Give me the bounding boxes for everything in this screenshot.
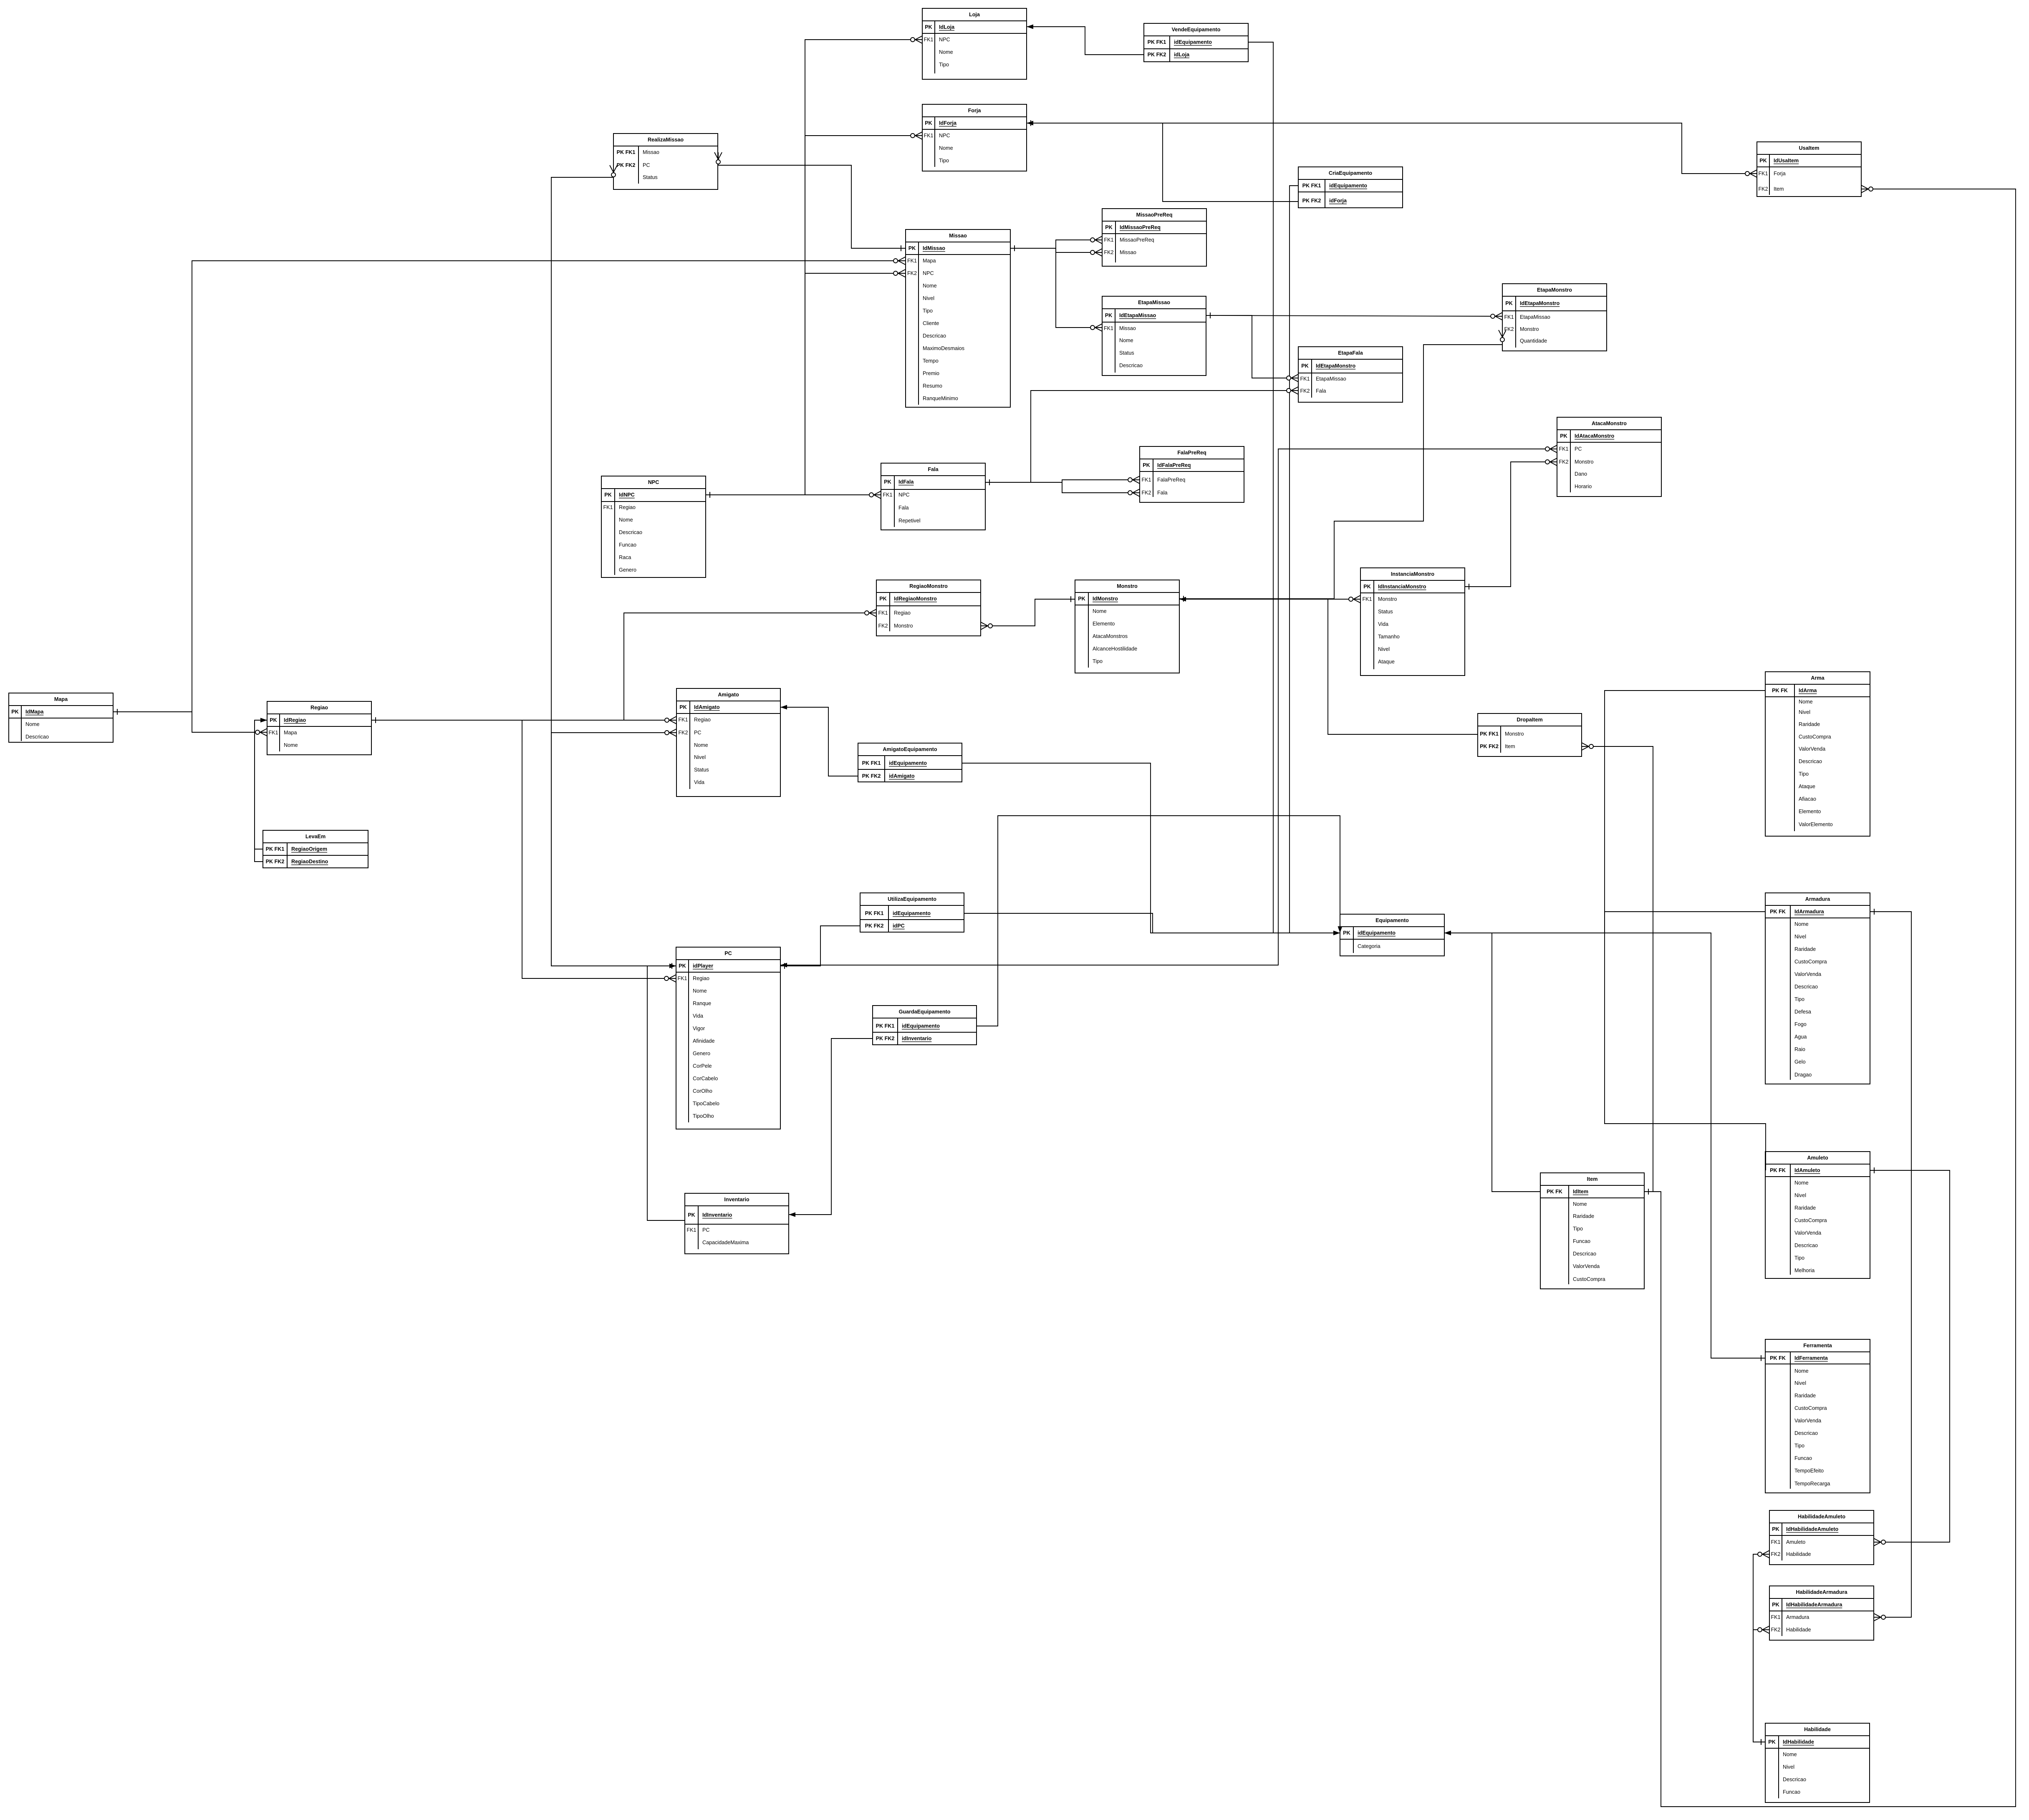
svg-text:FK1: FK1 — [878, 610, 888, 616]
svg-text:FK2: FK2 — [907, 270, 917, 276]
svg-text:Ferramenta: Ferramenta — [1803, 1343, 1832, 1349]
svg-text:NPC: NPC — [939, 37, 950, 43]
entity table EtapaMonstro — [1502, 284, 1607, 351]
entity table CriaEquipamento — [1298, 167, 1403, 208]
svg-text:NPC: NPC — [923, 270, 934, 276]
svg-text:FalaPreReq: FalaPreReq — [1177, 450, 1206, 456]
svg-text:Nome: Nome — [1573, 1201, 1587, 1207]
svg-text:PK: PK — [909, 245, 916, 251]
svg-text:PK: PK — [1343, 930, 1350, 936]
svg-text:Nivel: Nivel — [1794, 1192, 1806, 1198]
svg-text:IdRegiaoMonstro: IdRegiaoMonstro — [894, 596, 937, 602]
svg-text:Tipo: Tipo — [939, 158, 949, 164]
svg-text:Regiao: Regiao — [894, 610, 911, 616]
svg-text:CorCabelo: CorCabelo — [693, 1076, 718, 1081]
svg-text:IdRegiao: IdRegiao — [284, 717, 306, 723]
svg-text:CustoCompra: CustoCompra — [1573, 1276, 1605, 1282]
wire Fala.IdFala to FalaPreReq.FalaPreReq — [985, 476, 1140, 484]
svg-text:Descricao: Descricao — [1783, 1777, 1806, 1782]
svg-text:Nome: Nome — [939, 49, 953, 55]
wire Amigato.PC to PC.idPlayer — [551, 729, 676, 968]
svg-text:VendeEquipamento: VendeEquipamento — [1172, 27, 1221, 33]
svg-text:Nome: Nome — [25, 721, 40, 727]
svg-text:Missao: Missao — [1119, 325, 1136, 331]
svg-text:TempoRecarga: TempoRecarga — [1794, 1481, 1830, 1487]
entity table Ferramenta — [1765, 1339, 1870, 1493]
wire Missao.IdMissao to MissaoPreReq.MissaoPreReq — [1010, 236, 1102, 251]
svg-text:Mapa: Mapa — [54, 696, 68, 702]
svg-text:Genero: Genero — [693, 1051, 710, 1056]
svg-text:PK: PK — [1505, 300, 1513, 306]
entity table Amigato — [676, 688, 780, 797]
wire VendeEquipamento.idLoja to Loja.IdLoja — [1027, 25, 1144, 55]
svg-text:EtapaMonstro: EtapaMonstro — [1537, 287, 1572, 293]
svg-text:FK1: FK1 — [1300, 376, 1310, 382]
entity table NPC — [601, 476, 706, 577]
svg-text:CustoCompra: CustoCompra — [1794, 1405, 1827, 1411]
svg-text:Funcao: Funcao — [1794, 1455, 1812, 1461]
svg-text:NPC: NPC — [648, 479, 659, 485]
svg-text:HabilidadeAmuleto: HabilidadeAmuleto — [1798, 1514, 1845, 1520]
wire RealizaMissao.Missao to Missao.IdMissao — [714, 152, 905, 251]
svg-text:Mapa: Mapa — [923, 258, 936, 264]
svg-text:PK FK2: PK FK2 — [876, 1036, 895, 1041]
svg-text:Nome: Nome — [693, 988, 707, 994]
svg-text:IdAmuleto: IdAmuleto — [1794, 1167, 1820, 1173]
svg-text:Inventario: Inventario — [724, 1197, 749, 1202]
svg-text:Nome: Nome — [1799, 699, 1813, 705]
svg-text:MissaoPreReq: MissaoPreReq — [1136, 212, 1173, 218]
svg-text:idEquipamento: idEquipamento — [902, 1023, 940, 1029]
svg-text:PK FK: PK FK — [1547, 1189, 1562, 1195]
wire Item.IdItem to UsaItem.Item — [1644, 185, 2016, 1807]
wire Mapa.IdMapa to Regiao.Mapa — [113, 712, 267, 736]
svg-text:PK FK2: PK FK2 — [1302, 198, 1321, 204]
svg-text:IdHabilidade: IdHabilidade — [1783, 1739, 1814, 1745]
svg-text:IdMissao: IdMissao — [923, 245, 945, 251]
svg-text:Nome: Nome — [694, 742, 708, 748]
entity table LevaEm — [263, 830, 368, 868]
svg-text:Monstro: Monstro — [894, 623, 913, 629]
wire Fala.IdFala to EtapaFala.Fala — [985, 387, 1298, 485]
svg-text:PK: PK — [1301, 363, 1309, 369]
svg-text:ValorVenda: ValorVenda — [1794, 971, 1821, 977]
entity table MissaoPreReq — [1102, 209, 1206, 266]
wire Missao.IdMissao to EtapaMissao.Missao — [1010, 248, 1102, 331]
wire Fala.IdFala to FalaPreReq.Fala — [985, 482, 1140, 497]
wire EtapaMissao.IdEtapaMissao to EtapaFala.EtapaMissao — [1206, 315, 1298, 382]
svg-text:FK1: FK1 — [678, 717, 688, 723]
entity table Arma — [1765, 672, 1870, 836]
svg-text:Nivel: Nivel — [923, 295, 934, 301]
svg-text:Tipo: Tipo — [1794, 996, 1804, 1002]
entity table InstanciaMonstro — [1360, 568, 1465, 676]
svg-text:ValorElemento: ValorElemento — [1799, 822, 1833, 827]
entity table Equipamento — [1340, 914, 1444, 956]
svg-text:PK: PK — [884, 479, 891, 485]
svg-text:FK1: FK1 — [883, 492, 892, 498]
entity table PC — [676, 947, 780, 1129]
svg-text:Funcao: Funcao — [1783, 1789, 1800, 1795]
svg-text:Afiacao: Afiacao — [1799, 796, 1816, 802]
wire EtapaMissao.IdEtapaMissao to EtapaMonstro.EtapaMissao — [1206, 313, 1502, 320]
svg-text:Fogo: Fogo — [1794, 1021, 1807, 1027]
svg-text:IdMonstro: IdMonstro — [1093, 596, 1118, 602]
svg-text:PK FK2: PK FK2 — [865, 923, 884, 929]
svg-text:CorPele: CorPele — [693, 1063, 712, 1069]
svg-text:IdHabilidadeArmadura: IdHabilidadeArmadura — [1786, 1602, 1842, 1608]
svg-text:Forja: Forja — [1774, 171, 1786, 176]
svg-text:Armadura: Armadura — [1805, 896, 1830, 902]
svg-text:IdEtapaMonstro: IdEtapaMonstro — [1520, 300, 1560, 306]
svg-text:Ataque: Ataque — [1378, 659, 1395, 665]
svg-text:Raridade: Raridade — [1794, 946, 1816, 952]
svg-text:Status: Status — [643, 174, 658, 180]
svg-text:PK: PK — [879, 596, 887, 602]
svg-text:Resumo: Resumo — [923, 383, 942, 389]
entity table EtapaMissao — [1102, 296, 1206, 376]
svg-text:Repetivel: Repetivel — [898, 518, 921, 524]
wire NPC.IdNPC to Missao.NPC — [706, 270, 905, 498]
entity table Inventario — [685, 1193, 789, 1254]
entity table GuardaEquipamento — [873, 1006, 977, 1045]
svg-text:ValorVenda: ValorVenda — [1794, 1418, 1821, 1424]
wire Regiao.IdRegiao to RegiaoMonstro.Regiao — [371, 609, 876, 723]
svg-text:UsaItem: UsaItem — [1799, 145, 1820, 151]
svg-text:Tipo: Tipo — [1794, 1255, 1804, 1261]
svg-text:PK FK1: PK FK1 — [1148, 39, 1166, 45]
svg-text:PC: PC — [1575, 446, 1582, 452]
svg-text:IdFerramenta: IdFerramenta — [1794, 1355, 1828, 1361]
entity table HabilidadeAmuleto — [1769, 1510, 1874, 1565]
svg-text:Nivel: Nivel — [1378, 646, 1390, 652]
svg-text:PC: PC — [643, 162, 650, 168]
wire Regiao.IdRegiao to Amigato.Regiao — [371, 716, 676, 724]
svg-text:ValorVenda: ValorVenda — [1794, 1230, 1821, 1236]
entity table FalaPreReq — [1140, 446, 1244, 502]
svg-text:ValorVenda: ValorVenda — [1799, 746, 1825, 752]
svg-text:Funcao: Funcao — [619, 542, 636, 548]
svg-text:IdLoja: IdLoja — [939, 24, 955, 30]
svg-text:Item: Item — [1505, 744, 1515, 749]
svg-text:Monstro: Monstro — [1505, 731, 1524, 737]
svg-text:Tipo: Tipo — [923, 308, 933, 314]
svg-text:Quantidade: Quantidade — [1520, 338, 1547, 344]
wire UtilizaEquipamento.idEquipamento to Equipamento — [964, 913, 1340, 935]
svg-text:FK2: FK2 — [1300, 388, 1310, 394]
svg-text:FK1: FK1 — [1771, 1539, 1780, 1545]
svg-text:Nivel: Nivel — [694, 754, 706, 760]
svg-text:PK FK1: PK FK1 — [1302, 183, 1321, 189]
svg-text:PK: PK — [1105, 224, 1113, 230]
svg-text:AtacaMonstros: AtacaMonstros — [1093, 633, 1128, 639]
svg-text:Premio: Premio — [923, 371, 939, 376]
svg-text:Missao: Missao — [643, 149, 659, 155]
svg-text:Raca: Raca — [619, 555, 631, 560]
svg-text:FK2: FK2 — [1771, 1627, 1780, 1633]
entity table Regiao — [267, 701, 371, 755]
entity table AtacaMonstro — [1557, 417, 1661, 497]
svg-text:Habilidade: Habilidade — [1804, 1727, 1831, 1732]
svg-text:InstanciaMonstro: InstanciaMonstro — [1391, 571, 1435, 577]
svg-text:Descricao: Descricao — [619, 529, 642, 535]
svg-text:FK2: FK2 — [678, 730, 688, 736]
svg-text:PK: PK — [679, 963, 686, 969]
svg-text:IdAmigato: IdAmigato — [694, 704, 720, 710]
svg-text:IdEtapaMissao: IdEtapaMissao — [1119, 313, 1156, 318]
svg-text:RanqueMinimo: RanqueMinimo — [923, 396, 958, 401]
svg-text:PK: PK — [270, 717, 277, 723]
svg-text:IdNPC: IdNPC — [619, 492, 635, 498]
wire Monstro.IdMonstro to DropaItem.Monstro — [1179, 599, 1478, 734]
svg-text:FK2: FK2 — [1771, 1551, 1780, 1557]
svg-text:FK1: FK1 — [1758, 171, 1768, 176]
svg-text:PK FK1: PK FK1 — [876, 1023, 895, 1029]
entity table Monstro — [1075, 580, 1179, 673]
svg-text:Monstro: Monstro — [1575, 459, 1594, 465]
svg-text:Elemento: Elemento — [1093, 621, 1115, 627]
svg-text:IdArmadura: IdArmadura — [1794, 909, 1825, 915]
svg-text:Amuleto: Amuleto — [1807, 1155, 1828, 1161]
wire NPC.IdNPC to Forja.NPC — [706, 132, 922, 498]
svg-text:GuardaEquipamento: GuardaEquipamento — [899, 1009, 951, 1015]
svg-text:PK: PK — [1759, 158, 1767, 164]
svg-text:IdEtapaMonstro: IdEtapaMonstro — [1316, 363, 1355, 369]
svg-text:Tipo: Tipo — [1573, 1226, 1583, 1232]
svg-text:Ranque: Ranque — [693, 1001, 711, 1006]
wire VendeEquipamento.idEquipamento to Equipamento — [1248, 42, 1340, 935]
svg-text:idEquipamento: idEquipamento — [889, 760, 927, 766]
entity table DropaItem — [1478, 713, 1582, 756]
svg-text:RegiaoDestino: RegiaoDestino — [291, 859, 328, 865]
svg-text:PK FK1: PK FK1 — [862, 760, 881, 766]
svg-text:Raridade: Raridade — [1794, 1393, 1816, 1399]
svg-text:PK FK2: PK FK2 — [617, 162, 636, 168]
svg-text:Fala: Fala — [928, 466, 939, 472]
svg-text:idPlayer: idPlayer — [693, 963, 713, 969]
svg-text:FK2: FK2 — [1559, 459, 1568, 465]
svg-text:PC: PC — [724, 950, 732, 956]
svg-text:PK: PK — [925, 24, 932, 30]
svg-text:IdArma: IdArma — [1799, 688, 1817, 693]
svg-text:EtapaFala: EtapaFala — [1338, 350, 1363, 356]
wire GuardaEquipamento.idInventario to Inventario.IdInventario — [789, 1039, 873, 1217]
svg-text:IdFalaPreReq: IdFalaPreReq — [1157, 462, 1191, 468]
svg-text:PK FK1: PK FK1 — [865, 910, 884, 916]
svg-text:Horario: Horario — [1575, 484, 1592, 489]
svg-text:PK: PK — [925, 120, 932, 126]
svg-text:Funcao: Funcao — [1573, 1238, 1590, 1244]
svg-text:PK FK1: PK FK1 — [617, 149, 636, 155]
svg-text:Nivel: Nivel — [1794, 1380, 1806, 1386]
entity table Fala — [881, 463, 985, 530]
svg-text:AmigatoEquipamento: AmigatoEquipamento — [883, 746, 937, 752]
svg-text:IdAtacaMonstro: IdAtacaMonstro — [1575, 433, 1614, 439]
svg-text:PK FK: PK FK — [1770, 909, 1786, 915]
wire HabilidadeArmadura.Habilidade to Habilidade.IdHabilidade — [1753, 1626, 1769, 1745]
svg-text:Monstro: Monstro — [1117, 583, 1138, 589]
svg-text:Descricao: Descricao — [1794, 1243, 1818, 1248]
svg-text:NPC: NPC — [939, 133, 950, 139]
wire LevaEm.RegiaoOrigem to Regiao.IdRegiao — [255, 718, 267, 850]
svg-text:Item: Item — [1774, 186, 1784, 192]
svg-text:Descricao: Descricao — [1794, 984, 1818, 990]
wire UtilizaEquipamento.idPC to PC.idPlayer — [780, 926, 860, 969]
svg-text:FK1: FK1 — [268, 730, 278, 736]
svg-text:Status: Status — [1378, 609, 1393, 615]
wire Monstro.IdMonstro to InstanciaMonstro.Monstro — [1179, 595, 1360, 603]
svg-text:Arma: Arma — [1811, 675, 1825, 681]
svg-text:Tamanho: Tamanho — [1378, 634, 1400, 640]
svg-text:IdForja: IdForja — [939, 120, 957, 126]
svg-text:Nivel: Nivel — [1794, 934, 1806, 940]
svg-text:Nivel: Nivel — [1783, 1764, 1794, 1770]
svg-text:PK FK2: PK FK2 — [862, 773, 881, 779]
svg-text:Gelo: Gelo — [1794, 1059, 1806, 1065]
svg-text:PK: PK — [1105, 313, 1113, 318]
svg-text:PK: PK — [1363, 584, 1371, 590]
svg-text:PK: PK — [1772, 1602, 1779, 1608]
entity table EtapaFala — [1298, 347, 1403, 402]
svg-text:PK FK: PK FK — [1770, 1167, 1786, 1173]
svg-text:idEquipamento: idEquipamento — [1174, 39, 1212, 45]
svg-text:Raridade: Raridade — [1573, 1213, 1594, 1219]
svg-text:CorOlho: CorOlho — [693, 1088, 712, 1094]
svg-text:Descricao: Descricao — [25, 734, 49, 740]
wire Amuleto.IdAmuleto to Equipamento.idEquipamento — [1444, 931, 1766, 1171]
svg-text:IdItem: IdItem — [1573, 1189, 1588, 1195]
wire NPC.IdNPC to Loja.NPC — [706, 36, 922, 498]
svg-text:IdUsaItem: IdUsaItem — [1774, 158, 1799, 164]
svg-text:PK: PK — [1768, 1739, 1776, 1745]
svg-text:FK1: FK1 — [924, 37, 933, 43]
svg-text:Nome: Nome — [939, 145, 953, 151]
svg-text:PK: PK — [1560, 433, 1567, 439]
svg-text:CapacidadeMaxima: CapacidadeMaxima — [702, 1240, 749, 1245]
svg-text:Loja: Loja — [969, 12, 980, 18]
svg-text:Defesa: Defesa — [1794, 1009, 1811, 1015]
svg-text:FK1: FK1 — [1362, 596, 1372, 602]
entity table HabilidadeArmadura — [1769, 1586, 1874, 1640]
svg-text:Monstro: Monstro — [1520, 326, 1539, 332]
svg-text:PK: PK — [11, 709, 19, 715]
svg-text:FK1: FK1 — [1104, 237, 1113, 243]
svg-text:IdInstanciaMonstro: IdInstanciaMonstro — [1378, 584, 1426, 590]
svg-text:FK1: FK1 — [1504, 314, 1514, 320]
svg-text:FalaPreReq: FalaPreReq — [1157, 477, 1185, 483]
wire AmigatoEquipamento.idEquipamento to Equipamento — [962, 763, 1340, 935]
svg-text:ValorVenda: ValorVenda — [1573, 1263, 1600, 1269]
svg-text:PK FK: PK FK — [1770, 1355, 1786, 1361]
svg-text:Equipamento: Equipamento — [1375, 918, 1409, 923]
entity table Loja — [922, 8, 1027, 79]
svg-text:Tipo: Tipo — [939, 62, 949, 68]
svg-text:idAmigato: idAmigato — [889, 773, 915, 779]
entity table Missao — [906, 229, 1010, 407]
svg-text:FK1: FK1 — [1771, 1614, 1780, 1620]
svg-text:Nome: Nome — [1093, 608, 1107, 614]
wire NPC.IdNPC to Fala.NPC — [706, 491, 881, 499]
svg-text:Missao: Missao — [949, 233, 967, 239]
svg-text:PK FK: PK FK — [1772, 688, 1788, 693]
wire AtacaMonstro.PC to PC.idPlayer — [780, 445, 1557, 968]
entity table UtilizaEquipamento — [860, 893, 964, 932]
svg-text:FK1: FK1 — [924, 133, 933, 139]
svg-text:Dragao: Dragao — [1794, 1072, 1812, 1078]
svg-text:PK: PK — [604, 492, 612, 498]
svg-text:DropaItem: DropaItem — [1517, 717, 1542, 723]
svg-text:FK1: FK1 — [907, 258, 917, 264]
svg-text:MissaoPreReq: MissaoPreReq — [1120, 237, 1154, 243]
wire AmigatoEquipamento.idAmigato to Amigato.IdAmigato — [780, 705, 858, 776]
wire HabilidadeAmuleto.Habilidade to Habilidade.IdHabilidade — [1753, 1550, 1769, 1745]
svg-text:Categoria: Categoria — [1358, 943, 1380, 949]
svg-text:PK: PK — [1078, 596, 1085, 602]
svg-text:PK FK2: PK FK2 — [1148, 52, 1166, 58]
wire Ferramenta.IdFerramenta to Equipamento.idEquipamento — [1444, 931, 1765, 1361]
svg-text:IdFala: IdFala — [898, 479, 914, 485]
svg-text:Forja: Forja — [968, 108, 982, 113]
svg-text:EtapaMissao: EtapaMissao — [1520, 314, 1550, 320]
svg-text:Fala: Fala — [1316, 388, 1326, 394]
svg-text:MaximoDesmaios: MaximoDesmaios — [923, 345, 964, 351]
svg-text:Nome: Nome — [1794, 921, 1809, 927]
svg-text:PK: PK — [688, 1212, 695, 1218]
svg-text:Genero: Genero — [619, 567, 636, 573]
svg-text:TempoEfeito: TempoEfeito — [1794, 1468, 1824, 1474]
svg-text:Habilidade: Habilidade — [1786, 1627, 1811, 1633]
entity table Armadura — [1765, 893, 1870, 1084]
svg-text:idInventario: idInventario — [902, 1036, 932, 1041]
entity table Amuleto — [1765, 1152, 1870, 1278]
svg-text:EtapaMissao: EtapaMissao — [1138, 300, 1170, 305]
svg-text:CriaEquipamento: CriaEquipamento — [1329, 170, 1373, 176]
entity table Habilidade — [1765, 1723, 1870, 1802]
svg-text:PK FK2: PK FK2 — [266, 859, 285, 865]
wire Inventario.PC to PC.idPlayer — [647, 963, 685, 1220]
svg-text:Cliente: Cliente — [923, 320, 939, 326]
svg-text:PK FK2: PK FK2 — [1480, 744, 1499, 749]
svg-text:AlcanceHostilidade: AlcanceHostilidade — [1093, 646, 1137, 652]
svg-text:Tipo: Tipo — [1799, 771, 1809, 777]
svg-text:IdMissaoPreReq: IdMissaoPreReq — [1120, 224, 1161, 230]
svg-text:Nivel: Nivel — [1799, 709, 1810, 715]
svg-text:Descricao: Descricao — [1573, 1251, 1596, 1257]
wire Forja.IdForja to UsaItem.Forja — [1027, 120, 1757, 177]
svg-text:Ataque: Ataque — [1799, 784, 1815, 789]
svg-text:FK1: FK1 — [686, 1227, 696, 1233]
svg-text:FK1: FK1 — [1104, 325, 1113, 331]
wire InstanciaMonstro.IdInstanciaMonstro to AtacaMonstro.Monstro — [1465, 458, 1557, 590]
svg-text:FK2: FK2 — [1104, 250, 1113, 255]
svg-text:Descricao: Descricao — [923, 333, 946, 339]
svg-text:Raio: Raio — [1794, 1046, 1805, 1052]
svg-text:idForja: idForja — [1329, 198, 1347, 204]
svg-text:AtacaMonstro: AtacaMonstro — [1592, 421, 1627, 426]
svg-text:Tempo: Tempo — [923, 358, 939, 364]
svg-text:EtapaMissao: EtapaMissao — [1316, 376, 1346, 382]
svg-text:Nome: Nome — [923, 283, 937, 289]
svg-text:Raridade: Raridade — [1794, 1205, 1816, 1211]
entity table UsaItem — [1757, 142, 1861, 197]
svg-text:Monstro: Monstro — [1378, 596, 1397, 602]
entity table VendeEquipamento — [1144, 23, 1248, 62]
svg-text:Vigor: Vigor — [693, 1026, 705, 1031]
wire LevaEm.RegiaoDestino to Regiao.IdRegiao — [255, 718, 267, 862]
svg-text:LevaEm: LevaEm — [305, 834, 326, 839]
svg-text:Item: Item — [1587, 1176, 1598, 1182]
svg-text:IdHabilidadeAmuleto: IdHabilidadeAmuleto — [1786, 1526, 1839, 1532]
